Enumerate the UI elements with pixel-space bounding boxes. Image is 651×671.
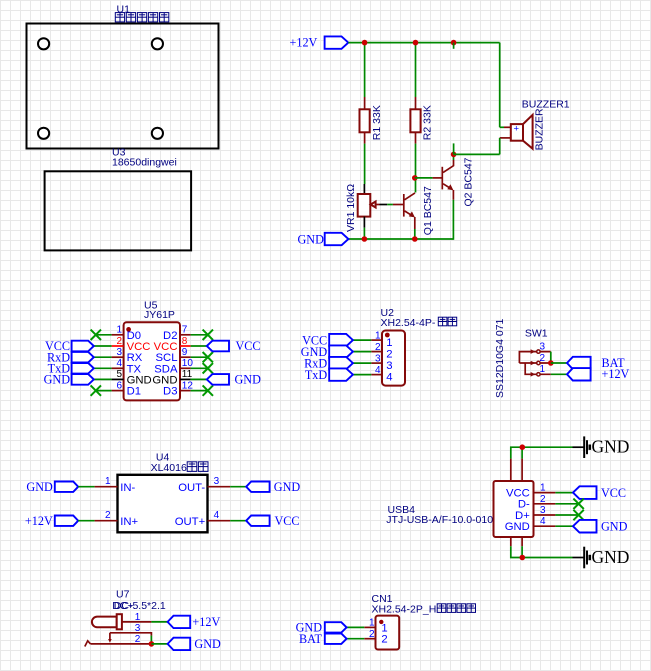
wire U5.4 [94, 367, 112, 369]
hole bottom-right [152, 128, 163, 139]
pin R1.1 [364, 97, 366, 109]
DC jack U7 barrel [92, 617, 117, 628]
svg-text:SW1: SW1 [525, 327, 548, 339]
wire CN1.1 [347, 626, 365, 628]
SW1 contact arrow 3 [531, 349, 536, 354]
wire U2.1 [353, 339, 371, 341]
svg-text:VCC: VCC [236, 339, 261, 353]
switch SW1 pole 1 [525, 363, 551, 374]
svg-text:U7: U7 [116, 588, 130, 600]
svg-text:XH2.54-2P_H: XH2.54-2P_H [372, 603, 437, 615]
svg-text:3: 3 [540, 505, 546, 516]
hole bottom-left [38, 128, 49, 139]
pin U5.9 [180, 356, 191, 358]
svg-text:GND: GND [592, 547, 630, 567]
net flag +12V SW1 [567, 368, 591, 380]
pin R1.2 [364, 132, 366, 143]
net flag BAT [567, 357, 591, 369]
net flag +12V [325, 36, 349, 48]
wire U2.2 [353, 351, 371, 353]
svg-text:18650dingwei: 18650dingwei [112, 156, 177, 168]
wire SW1 3-2 link [550, 352, 552, 363]
wire U2.4 [353, 374, 371, 376]
hole top-right [152, 38, 163, 49]
svg-text:2: 2 [386, 348, 392, 360]
junction rail VR1 [362, 236, 368, 242]
pin R2.2 [415, 132, 417, 143]
pin Q1 base [393, 204, 403, 206]
svg-text:GND: GND [26, 480, 53, 494]
pin USB4.2 [534, 503, 556, 505]
svg-text:1: 1 [105, 476, 111, 487]
pin U2.1 [371, 339, 382, 341]
net flag GND U4 left [55, 482, 78, 492]
svg-text:GND: GND [235, 373, 262, 387]
wire R1 to VR1 [364, 144, 366, 184]
wire shield bottom-right down [521, 546, 523, 557]
wire U4.1 [78, 486, 94, 488]
svg-text:3: 3 [135, 623, 141, 634]
wire buzzer feed down [499, 43, 501, 128]
svg-text:OUT-: OUT- [178, 482, 205, 494]
svg-text:GND: GND [298, 232, 325, 246]
Q1 emitter diagonal [405, 211, 414, 216]
pin U2.2 [371, 351, 382, 353]
svg-text:1: 1 [135, 612, 141, 623]
junction rail stub [451, 40, 457, 46]
svg-text:GND: GND [601, 519, 628, 533]
wire buzzer minus down [499, 138, 501, 155]
svg-text:1: 1 [116, 325, 122, 336]
svg-text:GND: GND [127, 374, 152, 386]
svg-text:D2: D2 [163, 330, 177, 342]
pin Q2 base [433, 177, 442, 179]
pin U7.1 [122, 621, 151, 623]
SW1 contact circle 2 [537, 361, 540, 364]
pin U5.11 [180, 378, 191, 380]
wire Q2 emitter down [452, 200, 454, 240]
svg-text:1: 1 [539, 364, 545, 375]
pin U5.6 [112, 390, 124, 392]
switch SW1 pole 2 [519, 362, 550, 364]
transistor Q1 base bar [403, 194, 405, 217]
pin VR1.2 [363, 217, 365, 228]
CN1 pin1 dot [379, 620, 383, 624]
junction rail R2 [413, 40, 419, 46]
svg-text:GND: GND [194, 637, 221, 651]
svg-text:1: 1 [381, 622, 387, 634]
svg-text:3: 3 [386, 360, 392, 372]
svg-text:3: 3 [375, 353, 381, 364]
net flag VCC right U5 [207, 341, 229, 352]
pin U4.4 [208, 520, 231, 522]
wire U4.2 [78, 520, 94, 522]
wire U5.3 [94, 356, 112, 358]
pin U4.3 [208, 486, 231, 488]
transistor Q2 base bar [441, 167, 443, 190]
net flag GND CN1 [325, 622, 347, 632]
svg-text:4: 4 [375, 365, 381, 376]
svg-text:GND: GND [274, 480, 301, 494]
pin U4.1 [95, 486, 118, 488]
svg-text:GND: GND [152, 374, 177, 386]
wire buzzer minus to Q2 [454, 153, 500, 155]
pin USB4 shield top-right [521, 459, 523, 481]
mounting plate U1 outline [27, 24, 219, 149]
svg-text:JY61P: JY61P [144, 309, 175, 321]
svg-text:TxD: TxD [305, 368, 328, 382]
wire U4.4 [230, 520, 246, 522]
wire USB4.4 [555, 525, 573, 527]
SW1 contact arrow 1 [531, 372, 536, 377]
USB4 body [494, 481, 534, 537]
svg-text:VCC: VCC [275, 514, 300, 528]
pin U5.12 [180, 390, 191, 392]
svg-text:D+: D+ [515, 510, 530, 522]
wire R2 to Q1 collector [415, 144, 417, 193]
svg-text:+: + [514, 124, 520, 135]
junction rail R1 [362, 40, 368, 46]
ground symbol top [573, 436, 590, 458]
potentiometer VR1 body [358, 194, 371, 217]
svg-text:VR1 10kΩ: VR1 10kΩ [345, 184, 357, 232]
junction Q2 collector node [451, 152, 457, 158]
wire U5.10 nc [191, 367, 208, 369]
wire U7.2 to GND [151, 643, 167, 645]
wire U7.1 [151, 621, 167, 623]
net flag GND right U5 [207, 374, 229, 385]
pin USB4.1 [534, 492, 556, 494]
pin U5.7 [180, 334, 191, 336]
svg-text:Q2 BC547: Q2 BC547 [463, 157, 475, 206]
junction U7 pin2 [149, 641, 155, 647]
net flag GND USB4 [573, 520, 597, 533]
svg-text:U1: U1 [117, 4, 131, 16]
svg-text:JTJ-USB-A/F-10.0-010: JTJ-USB-A/F-10.0-010 [386, 514, 493, 526]
svg-text:5: 5 [116, 369, 122, 380]
SW1 contact circle 1 [537, 373, 540, 376]
no-connect X pin1 [91, 330, 101, 340]
junction shield top [520, 444, 526, 450]
wire +12V rail [348, 42, 499, 44]
svg-text:4: 4 [214, 510, 220, 521]
wire CN1.2 [347, 638, 365, 640]
svg-text:BUZZER1: BUZZER1 [522, 99, 570, 111]
svg-text:7: 7 [182, 325, 188, 336]
svg-text:VCC: VCC [154, 341, 178, 353]
VR1 wiper stub [376, 204, 380, 206]
net flag BAT CN1 [325, 634, 347, 644]
Q2 emitter arrow [447, 184, 453, 190]
ground symbol bottom [573, 547, 590, 569]
svg-text:IN-: IN- [120, 482, 135, 494]
wire U4.3 [230, 486, 246, 488]
svg-text:+12V: +12V [602, 367, 630, 381]
svg-text:1: 1 [540, 483, 546, 494]
pin U7.3 [110, 633, 151, 636]
IC U5 body [124, 322, 180, 400]
VR1 wiper arrow [371, 202, 376, 208]
wire U5.1 nc [96, 334, 112, 336]
net flag RxD [72, 352, 94, 363]
svg-text:1: 1 [375, 330, 381, 341]
wire Q2 collector up [453, 154, 455, 160]
U7 switch arrow [108, 639, 112, 643]
wire U5.9 nc [191, 356, 208, 358]
wire USB4.2 nc [555, 503, 578, 505]
pin VR1.1 [363, 184, 365, 194]
pin U5.3 [112, 356, 124, 358]
svg-text:R2 33K: R2 33K [422, 105, 434, 140]
wire U5.11 [191, 378, 207, 380]
wire shield top-right up [521, 447, 523, 458]
svg-text:BUZZER: BUZZER [533, 108, 545, 150]
svg-text:D3: D3 [163, 386, 177, 398]
net flag VCC U4 right [246, 516, 269, 526]
svg-text:6: 6 [116, 380, 122, 391]
SW1 contact circle 3 [537, 350, 540, 353]
U7 switch drop [109, 633, 111, 639]
svg-text:OUT+: OUT+ [175, 516, 206, 528]
svg-text:4: 4 [386, 371, 392, 383]
pin U5.10 [180, 367, 191, 369]
wire R2 top [415, 43, 417, 97]
svg-text:+12V: +12V [25, 514, 53, 528]
svg-text:D-: D- [518, 499, 530, 511]
wire Q1 collector node to Q2 base [415, 177, 433, 179]
connector CN1 body [376, 616, 400, 650]
svg-text:VCC: VCC [127, 341, 151, 353]
svg-text:XH2.54-4P-: XH2.54-4P- [381, 317, 436, 329]
svg-text:2: 2 [540, 494, 546, 505]
pin R2.1 [415, 97, 417, 109]
pin U5.2 [112, 345, 124, 347]
svg-text:3: 3 [116, 347, 122, 358]
SW1 contact arrow 2 [531, 361, 536, 366]
net flag +12V U4 [55, 516, 78, 526]
svg-text:GND: GND [505, 521, 530, 533]
pin USB4 shield bottom-left [510, 537, 512, 546]
no-connect X USB4.2 [573, 499, 583, 509]
Q1 emitter arrow [409, 211, 415, 217]
wire stub below rail [453, 43, 455, 49]
U2 pin1 dot [385, 333, 390, 338]
net flag RxD U2 [329, 357, 353, 369]
buzzer BUZZER1 horn [523, 115, 533, 149]
svg-text:8: 8 [182, 336, 188, 347]
U5 pin1 dot [126, 327, 131, 332]
net flag VCC U2 [329, 334, 353, 346]
pin U2.3 [371, 362, 382, 364]
junction Q1 collector node [412, 175, 418, 181]
svg-text:D0: D0 [127, 330, 141, 342]
svg-text:3: 3 [214, 476, 220, 487]
net flag TxD [72, 363, 94, 374]
svg-text:IN+: IN+ [120, 516, 138, 528]
svg-text:12: 12 [182, 380, 194, 391]
svg-text:2: 2 [116, 336, 122, 347]
wire USB4.3 nc [555, 514, 578, 516]
no-connect X pin9 [203, 352, 213, 362]
net flag GND U2 [329, 345, 353, 357]
wire U5.2 [94, 345, 112, 347]
svg-text:BAT: BAT [299, 632, 323, 646]
pin U4.2 [95, 520, 118, 522]
junction rail Q1 [412, 236, 418, 242]
Q1 collector diagonal [405, 193, 416, 200]
buzzer BUZZER1 box [511, 124, 523, 141]
pin buzzer minus [500, 137, 511, 139]
wire U2.3 [353, 362, 371, 364]
svg-text:D1: D1 [127, 386, 141, 398]
wire U5.5 [94, 378, 112, 380]
module U4 body [118, 475, 208, 533]
Q2 collector diagonal [443, 166, 454, 173]
net flag +12V U7 [168, 616, 191, 628]
DC jack U7 tip bar [117, 614, 122, 629]
svg-text:2: 2 [369, 629, 375, 640]
svg-text:10: 10 [182, 358, 194, 369]
part name 树莓派定位 [115, 13, 124, 22]
wire U7.3 down [150, 636, 152, 644]
svg-text:+12V: +12V [192, 615, 220, 629]
net flag GND left U5 [72, 374, 94, 385]
wire R1 top [364, 43, 366, 97]
switch SW1 pole 3 [519, 352, 550, 363]
wire SW1.2 to BAT [551, 362, 567, 364]
wire SW1.1 to +12V [551, 373, 567, 375]
net flag GND [325, 233, 349, 245]
svg-text:VCC: VCC [601, 486, 626, 500]
svg-text:DC+: DC+ [112, 600, 133, 612]
svg-text:4: 4 [116, 358, 122, 369]
svg-text:GND: GND [592, 437, 630, 457]
wire VR1 to GND rail [363, 228, 365, 239]
resistor R2 body [410, 109, 420, 132]
svg-text:2: 2 [539, 353, 545, 364]
no-connect X pin10 [203, 363, 213, 373]
net flag GND U7 [168, 638, 191, 650]
svg-text:GND: GND [44, 373, 71, 387]
pin USB4 shield top-left [510, 459, 512, 481]
no-connect X pin12 [203, 385, 213, 395]
svg-text:+12V: +12V [290, 35, 318, 49]
Q2 emitter diagonal [443, 184, 452, 189]
svg-text:3: 3 [539, 341, 545, 352]
resistor R1 body [360, 109, 370, 132]
net flag VCC USB4 [573, 486, 597, 499]
connector U2 body [382, 331, 405, 386]
wire U5.7 nc [191, 334, 208, 336]
pin USB4 shield bottom-right [521, 537, 523, 546]
no-connect X pin7 [203, 330, 213, 340]
net flag GND U4 right [246, 482, 269, 492]
svg-text:SS12D10G4 071: SS12D10G4 071 [494, 318, 506, 398]
no-connect X pin6 [91, 385, 101, 395]
wire U5.6 nc [96, 390, 112, 392]
pin U5.1 [112, 334, 124, 336]
svg-text:Q1 BC547: Q1 BC547 [422, 186, 434, 235]
battery holder U3 outline [45, 171, 192, 250]
net flag VCC left [72, 341, 94, 352]
svg-text:2: 2 [375, 342, 381, 353]
wire USB4.1 [555, 492, 573, 494]
junction shield bottom [520, 555, 526, 561]
pin CN1.2 [364, 638, 375, 640]
pin U7.2 [91, 643, 152, 645]
wire U5.12 nc [191, 390, 208, 392]
svg-text:1: 1 [386, 337, 392, 349]
pin U5.8 [180, 345, 191, 347]
hole top-left [38, 38, 49, 49]
Q2 collector lead [453, 160, 455, 166]
wire buzzer plus [500, 126, 504, 128]
pin USB4.4 [534, 525, 556, 527]
junction SW1 pin2 [548, 360, 554, 366]
svg-text:XL4016: XL4016 [151, 462, 187, 474]
pin USB4.3 [534, 514, 556, 516]
svg-text:2: 2 [381, 634, 387, 646]
wire stub above Q2 node [453, 143, 455, 154]
svg-text:2: 2 [105, 510, 111, 521]
net flag TxD U2 [329, 368, 353, 380]
no-connect X USB4.3 [573, 510, 583, 520]
svg-text:2: 2 [135, 634, 141, 645]
pin U5.5 [112, 378, 124, 380]
Q1 emitter lead [414, 217, 416, 229]
wire shield top-left up [511, 447, 573, 458]
wire U5.8 [191, 345, 207, 347]
svg-text:1: 1 [369, 618, 375, 629]
wire wiper to Q1 base [387, 204, 393, 206]
svg-text:VCC: VCC [506, 487, 530, 499]
VR1 wiper pin [380, 204, 388, 206]
pin CN1.1 [364, 626, 375, 628]
wire Q1 emitter to rail [414, 229, 416, 239]
pin U7.2 sleeve zigzag [85, 641, 91, 647]
wire shield bottom-left down [511, 546, 573, 557]
svg-text:9: 9 [182, 347, 188, 358]
svg-text:4: 4 [540, 516, 546, 527]
wire GND rail [348, 238, 453, 240]
svg-text:R1 33K: R1 33K [371, 105, 383, 140]
Q2 emitter lead [452, 190, 454, 200]
svg-text:11: 11 [182, 369, 193, 380]
pin U2.4 [371, 374, 382, 376]
pin U5.4 [112, 367, 124, 369]
pin buzzer plus [504, 126, 511, 128]
